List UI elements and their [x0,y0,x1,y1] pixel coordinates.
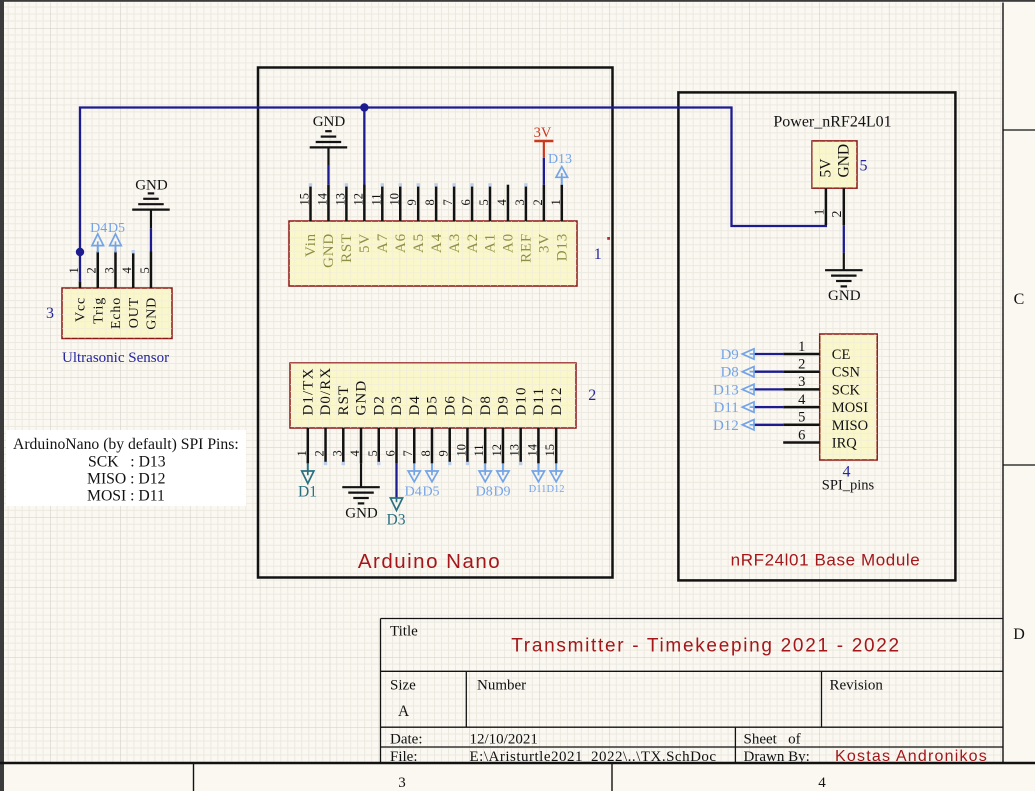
svg-text:D13: D13 [548,152,572,167]
svg-text:Number: Number [477,678,526,694]
pin 6 D3 of bottom header [384,395,406,463]
pin 3 SCK of SPI_pins [783,374,860,398]
svg-text:5: 5 [366,450,380,456]
svg-text:10: 10 [387,193,401,206]
nRF24l01 Base Module outline box [678,92,955,580]
pin 10 D7 of bottom header [454,395,476,463]
pin 5 MISO of SPI_pins [783,410,868,434]
port D13 (top header pin1) [548,152,572,185]
svg-text:D8: D8 [478,395,494,416]
pin 5 A1 of top header [477,185,499,253]
ground symbol GND (top header pin 14) [310,114,348,165]
pin 1 CE of SPI_pins [783,339,850,363]
connector 4 SPI_pins body [820,334,878,460]
svg-text:A3: A3 [447,233,463,253]
junction on bus at Arduino 5V [360,103,368,111]
port D4 (ultrasonic Trig) [90,221,107,253]
svg-text:2: 2 [85,267,99,273]
svg-text:3: 3 [398,775,406,791]
svg-text:Title: Title [390,624,418,640]
svg-text:6: 6 [798,427,805,443]
pin 9 D6 of bottom header [437,395,459,463]
svg-text:D2: D2 [371,395,387,416]
pin 13 D10 of bottom header [508,386,530,463]
svg-text:D12: D12 [713,418,739,434]
svg-text:GND: GND [835,144,852,178]
port D8 (SPI pin2) [720,365,754,381]
svg-text:IRQ: IRQ [832,436,858,452]
svg-text:14: 14 [525,443,539,456]
pin 1 5V of power connector [812,158,834,225]
svg-text:10: 10 [454,444,468,457]
svg-text:2: 2 [588,387,596,404]
designator 4 [843,464,851,481]
svg-text:A4: A4 [429,233,445,253]
svg-text:MOSI: MOSI [832,400,868,416]
svg-text:3: 3 [102,267,116,273]
svg-text:A5: A5 [411,233,427,253]
svg-text:CSN: CSN [832,365,861,381]
svg-text:5: 5 [477,199,491,205]
port D12 (bottom pin15) [546,463,564,495]
svg-text:7: 7 [441,199,455,205]
wire power pin2 to ground [843,225,845,253]
svg-text:9: 9 [405,199,419,205]
connector 1 Arduino top header body [289,221,577,286]
pin 1 Vcc of ultrasonic sensor [67,267,89,322]
wire top header pin14 to ground [327,165,329,185]
pin 15 Vin of top header [298,185,320,257]
svg-text:Size: Size [390,678,416,694]
pin 15 D12 of bottom header [543,386,565,463]
pin 8 A4 of top header [423,185,445,253]
svg-text:2: 2 [313,450,327,456]
svg-text:2: 2 [830,211,845,218]
pin 10 A6 of top header [387,185,409,253]
pin 2 CSN of SPI_pins [783,357,860,381]
wire SPI pin2 to port D8 [754,371,783,373]
svg-text:Power_nRF24L01: Power_nRF24L01 [773,114,891,131]
svg-text:GND: GND [828,288,861,304]
pin 4 A0 of top header [495,185,517,253]
svg-text:D13: D13 [555,233,571,261]
pin 11 A7 of top header [369,185,391,253]
pin 6 A2 of top header [459,185,481,253]
svg-text:GND: GND [354,380,370,416]
svg-text:D9: D9 [720,347,738,363]
svg-text:1: 1 [549,199,563,205]
wire ultrasonic pin5 to ground [150,228,152,251]
port D11 (bottom pin14) [529,463,547,495]
svg-text:11: 11 [369,193,383,205]
svg-text:1: 1 [295,450,309,456]
pin 14 D11 of bottom header [525,387,547,463]
svg-text:15: 15 [298,193,312,206]
svg-text:GND: GND [345,506,378,522]
svg-text:D12: D12 [549,386,565,415]
pin 11 D8 of bottom header [472,395,494,463]
svg-text:2: 2 [798,357,805,373]
label Ultrasonic Sensor [62,350,169,366]
power port 3V [534,125,554,158]
label Power_nRF24L01 [773,114,891,131]
pin 1 D13 of top header [549,185,571,262]
pin 8 D5 of bottom header [419,395,441,463]
port D3 [387,498,406,529]
pin 5 GND of ultrasonic sensor [138,252,160,330]
svg-text:1: 1 [67,267,81,273]
svg-text:8: 8 [419,450,433,456]
svg-text:D11: D11 [714,400,739,416]
svg-text:Drawn By:: Drawn By: [744,749,810,765]
svg-text:12: 12 [490,444,504,457]
ground symbol GND (nRF24 power) [825,253,863,304]
svg-text:GND: GND [321,233,337,268]
svg-text:9: 9 [437,450,451,456]
ground symbol GND (bottom pin4) [342,463,380,521]
pin 4 MOSI of SPI_pins [783,392,868,416]
svg-text:D11: D11 [531,387,547,416]
svg-text:Trig: Trig [91,297,106,324]
pin 2 D0/RX of bottom header [313,367,335,464]
svg-text:13: 13 [508,444,522,457]
svg-text:7: 7 [401,450,415,456]
wire SPI pin3 to port D13 [754,388,783,390]
svg-text:4: 4 [798,392,806,408]
svg-text:nRF24l01 Base Module: nRF24l01 Base Module [731,551,921,570]
svg-text:RST: RST [339,233,355,263]
svg-text:D8: D8 [476,485,493,500]
svg-text:A1: A1 [483,233,499,253]
pin 13 RST of top header [333,185,355,263]
port D9 (SPI pin1) [720,347,754,363]
svg-text:D5: D5 [425,395,441,416]
svg-text:D5: D5 [422,485,439,500]
pin 1 D1/TX of bottom header [295,368,317,464]
junction at ultrasonic Vcc [76,248,84,256]
svg-text:3V: 3V [534,125,552,141]
connector 5 Power_nRF24L01 body [812,141,857,188]
wire SPI pin4 to port D11 [754,406,783,408]
connector 3 Ultrasonic Sensor body [62,288,172,339]
svg-text:5: 5 [860,158,868,175]
title text [511,636,901,657]
svg-text:A0: A0 [501,233,517,253]
svg-text:D0/RX: D0/RX [318,367,334,416]
svg-text:E:\Aristurtle2021_2022\..\TX.S: E:\Aristurtle2021_2022\..\TX.SchDoc [470,749,717,765]
designator 1 [594,246,602,263]
svg-text:3: 3 [330,450,344,456]
svg-text:5: 5 [798,410,805,426]
svg-text:C: C [1014,291,1025,308]
port D9 (bottom pin12) [493,463,510,499]
pin 12 5V of top header [351,185,373,253]
marker red dot [607,237,610,240]
svg-text:12/10/2021: 12/10/2021 [470,732,538,748]
svg-text:8: 8 [423,199,437,205]
pin 3 RST of bottom header [330,385,352,464]
svg-text:CE: CE [832,347,851,363]
svg-text:Vin: Vin [303,233,319,257]
svg-text:GND: GND [313,114,346,130]
port D12 (SPI pin5) [713,418,754,434]
pin 3 REF of top header [513,185,535,263]
wire 5V bus: ultrasonic Vcc to Arduino 5V pin to nRF24 power [80,108,826,282]
svg-text:GND: GND [135,178,168,194]
designator 3 [46,305,54,322]
svg-text:5V: 5V [817,158,834,178]
svg-text:D3: D3 [389,395,405,416]
pin 14 GND of top header [315,185,337,268]
svg-text:12: 12 [351,193,365,206]
wire SPI pin5 to port D12 [754,424,783,426]
Arduino Nano module outline box [258,68,613,578]
svg-text:2: 2 [531,199,545,205]
designator 5 [860,158,868,175]
svg-text:D6: D6 [442,395,458,416]
pin 2 GND of power connector [830,144,852,225]
svg-text:GND: GND [145,297,160,330]
svg-text:Date:: Date: [390,732,422,748]
pin 2 3V of top header [531,185,553,253]
ground symbol GND (ultrasonic) [132,178,170,229]
svg-text:A2: A2 [465,233,481,253]
svg-text:MISO : D12: MISO : D12 [87,471,165,488]
svg-text:D13: D13 [713,382,739,398]
svg-text:A6: A6 [393,233,409,253]
drawn by name [835,748,988,765]
svg-text:Revision: Revision [830,678,884,694]
svg-text:SCK : D13: SCK : D13 [88,454,166,471]
svg-text:A7: A7 [375,233,391,253]
svg-text:MISO: MISO [832,418,868,434]
svg-text:Arduino Nano: Arduino Nano [358,550,501,573]
svg-text:A: A [398,703,410,720]
svg-text:14: 14 [315,192,329,205]
designator 2 [588,387,596,404]
pin 6 IRQ of SPI_pins [783,427,857,451]
svg-text:Echo: Echo [109,297,124,329]
pin 7 A3 of top header [441,185,463,253]
pin 12 D9 of bottom header [490,395,512,463]
pin 9 A5 of top header [405,185,427,253]
svg-text:Vcc: Vcc [74,297,89,322]
svg-text:5: 5 [138,267,152,273]
svg-text:D1/TX: D1/TX [301,368,317,416]
svg-text:6: 6 [384,450,398,456]
connector 2 Arduino bottom header body [290,363,576,428]
svg-text:OUT: OUT [127,297,142,328]
svg-text:D11: D11 [529,484,547,495]
svg-text:4: 4 [120,267,134,274]
port D5 (ultrasonic Echo) [108,221,125,253]
port D11 (SPI pin4) [714,400,754,416]
port D8 (bottom pin11) [476,463,493,499]
svg-text:Transmitter - Timekeeping 2021: Transmitter - Timekeeping 2021 - 2022 [511,636,901,657]
svg-text:Kostas Andronikos: Kostas Andronikos [835,748,988,765]
svg-text:SCK: SCK [832,382,861,398]
pin 7 D4 of bottom header [401,395,423,463]
svg-text:File:: File: [390,749,418,765]
label SPI_pins [822,478,875,494]
pin 4 OUT of ultrasonic sensor [120,252,142,329]
svg-text:4: 4 [348,450,362,457]
svg-text:3: 3 [798,374,805,390]
svg-text:5V: 5V [357,233,373,253]
svg-text:REF: REF [519,233,535,263]
svg-text:6: 6 [459,199,473,205]
svg-text:D1: D1 [298,484,317,501]
open pin end markers [132,183,528,465]
svg-text:4: 4 [495,199,509,206]
svg-text:Sheet of: Sheet of [744,732,801,748]
svg-text:D4: D4 [90,221,107,236]
note: ArduinoNano SPI pins text box [6,430,246,506]
port D5 (bottom pin8) [422,463,439,499]
port D1 (bottom pin1) [298,463,317,500]
wire SPI pin1 to port D9 [754,353,783,355]
svg-text:RST: RST [336,385,352,416]
svg-text:3: 3 [46,305,54,322]
svg-text:D10: D10 [513,386,529,415]
wire bottom pin6 to D3 port [395,463,397,498]
title block labels [390,624,883,766]
svg-text:1: 1 [798,339,805,355]
svg-text:D12: D12 [546,484,564,495]
svg-text:4: 4 [818,775,826,791]
svg-text:Ultrasonic Sensor: Ultrasonic Sensor [62,350,169,366]
svg-text:MOSI : D11: MOSI : D11 [87,488,165,505]
svg-text:1: 1 [594,246,602,263]
svg-text:D9: D9 [496,395,512,416]
pin 4 GND of bottom header [348,380,370,464]
svg-text:3: 3 [513,199,527,205]
svg-text:11: 11 [472,444,486,456]
wire branch to Arduino pin 12 (5V) [363,108,365,186]
svg-text:D4: D4 [407,395,423,416]
svg-text:D: D [1013,626,1025,643]
port D13 (SPI pin3) [713,382,754,398]
wire top header pin2 to 3V supply [543,158,545,185]
port D4 (bottom pin7) [405,463,422,499]
pin 2 Trig of ultrasonic sensor [85,252,107,324]
svg-text:D4: D4 [405,485,422,500]
svg-text:D8: D8 [720,365,738,381]
svg-text:D5: D5 [108,221,125,236]
svg-text:ArduinoNano (by default) SPI P: ArduinoNano (by default) SPI Pins: [13,436,239,453]
svg-text:3V: 3V [537,233,553,253]
svg-text:1: 1 [812,209,827,216]
title block frame [381,619,1004,764]
svg-text:15: 15 [543,444,557,457]
svg-text:13: 13 [333,193,347,206]
svg-text:D9: D9 [493,485,510,500]
pin 5 D2 of bottom header [366,395,388,463]
pin 3 Echo of ultrasonic sensor [102,252,124,329]
svg-text:D7: D7 [460,395,476,416]
svg-text:SPI_pins: SPI_pins [822,478,875,494]
svg-text:D3: D3 [387,512,406,529]
